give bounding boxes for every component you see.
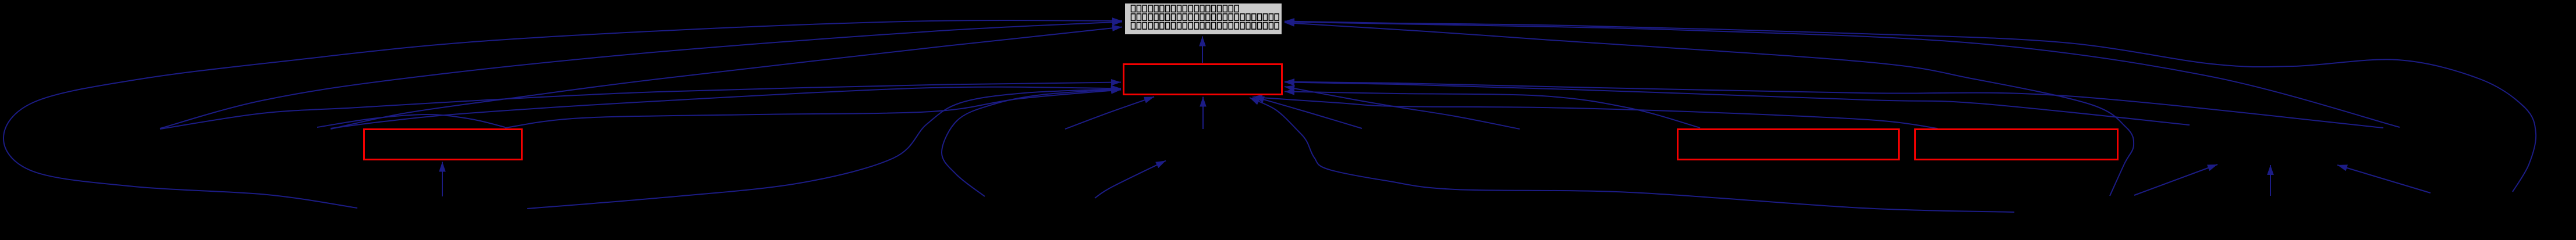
edge e17: node K4 to N2 (S-curve): [1250, 98, 2014, 212]
edge e14: node V1 to N2 (vertical): [1200, 97, 1207, 130]
edge e18: node V2 to N2: [1285, 78, 2383, 128]
edge e10c: flat arc between node L2 and node R2 (left red): [317, 114, 505, 127]
edge e2: node L1 to N1: [160, 19, 1122, 128]
edge e7: node N2 to N1: [1199, 37, 1206, 63]
edge e4: node K6 to N1 (right loop): [1285, 18, 2536, 192]
edge e11: node K2 to N2 (lower-left curve): [527, 86, 1121, 209]
node R4: right red node 2: [1915, 130, 2118, 160]
node N2: central function (red border, black label): [1124, 65, 1282, 95]
edge e1: node K1 to N1 (big left loop): [3, 17, 1122, 208]
edge e10: node R2 (left red) corner to N2: [505, 87, 1121, 128]
edge e13: node V1a to N2 (NE arrow into bottom): [1065, 97, 1154, 130]
edge e22: node K3 to R2 (vertical under left red): [439, 162, 446, 197]
node R2: left red node: [364, 130, 522, 160]
node R3: right red node 1: [1678, 130, 1899, 160]
edge e23: node K5 to V4 (NE): [2134, 164, 2217, 195]
edge e16: node R4 (right red 2) to N2: [1252, 94, 1938, 128]
node N1: current function (grey box, unrenderable CJK label): [1124, 3, 1282, 35]
edge e19: node V3 to N2: [1285, 79, 2190, 125]
edge e6: node K5 to N1: [1285, 20, 2134, 196]
edge e27: node K1c to N2 (left-bowed hook from below): [942, 87, 1121, 196]
edge e3: node L2 to N1: [331, 25, 1122, 129]
edge e15: node V1c to N2 (short NW): [1254, 96, 1362, 128]
edge e21: node R3 (right red 1) to N2: [1285, 88, 1700, 128]
edge e24: node K5b to V4 (vertical): [2267, 165, 2274, 196]
edge e25: node K6b to V4 (NW): [2337, 164, 2430, 193]
edge e26: node K1b to V1 (NE small): [1095, 161, 1166, 199]
edge e5: node V2 to N1: [1285, 19, 2400, 127]
edge e8: node L1 to N2: [160, 79, 1121, 129]
edge e9: node L2 to N2: [331, 85, 1121, 129]
edge e20: node V1d to N2: [1285, 85, 1520, 130]
